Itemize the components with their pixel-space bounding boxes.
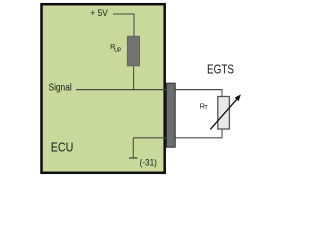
svg-text:ECU: ECU	[51, 141, 74, 155]
svg-text:+ 5V: + 5V	[90, 8, 107, 18]
signal wire	[76, 89, 223, 91]
wire signal drop to R_T	[221, 90, 223, 97]
svg-text:(-31): (-31)	[140, 157, 157, 167]
connector bar	[167, 83, 176, 147]
ECU box	[42, 4, 165, 173]
svg-text:T: T	[204, 106, 208, 112]
svg-text:Signal: Signal	[49, 83, 72, 94]
wire R_UP to signal	[133, 66, 135, 90]
arrow (variable resistor)	[210, 99, 237, 130]
wire +5V to R_UP	[113, 14, 134, 37]
svg-text:EGTS: EGTS	[207, 63, 234, 77]
svg-text:UP: UP	[114, 47, 121, 54]
return wire	[133, 137, 222, 139]
node (-31) vertical	[132, 138, 134, 158]
resistor R_T	[218, 97, 230, 130]
wire R_T bottom stub	[221, 129, 223, 138]
resistor R_UP	[127, 36, 139, 66]
node (-31) terminal tick	[129, 157, 138, 159]
